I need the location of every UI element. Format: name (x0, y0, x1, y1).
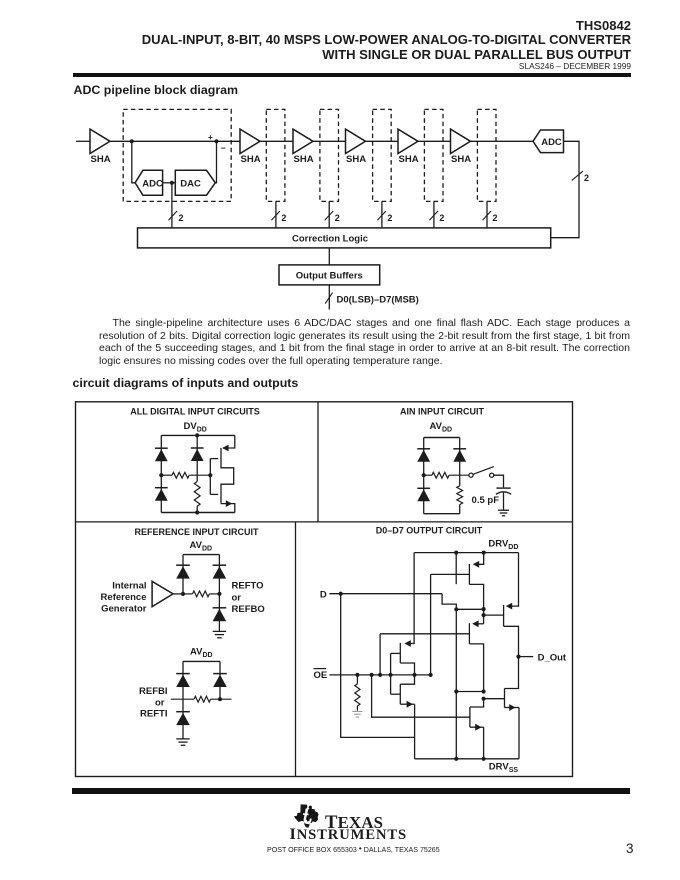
Correction Logic box (138, 228, 551, 248)
paragraph (99, 317, 630, 367)
left branch: diode D10 (182, 661, 184, 738)
svg-text:SHA: SHA (451, 154, 471, 165)
wire final ADC to correction logic (2-bit bus) (551, 141, 579, 237)
stage 2 dashed box (266, 109, 285, 201)
AVDD rail lower (183, 660, 220, 662)
stage 5 dashed box (424, 109, 443, 201)
INSTRUMENTS wordmark (290, 825, 408, 844)
TI logo: texas map with ti (293, 804, 320, 828)
capacitor C1 0.5 pF (496, 487, 510, 489)
header rule (73, 73, 631, 77)
diode D1 (155, 447, 168, 449)
stage 5 2-bit bus (433, 201, 435, 228)
wire correction logic to output buffers (328, 248, 330, 265)
svg-text:2: 2 (281, 213, 286, 223)
pulldown resistor (194, 482, 200, 507)
OE to Q7 gate dropper (390, 675, 392, 694)
wire stage 6 (471, 140, 534, 142)
diode D4 (417, 448, 430, 450)
TEXAS wordmark (325, 812, 383, 834)
AVDD rail upper (183, 554, 219, 556)
svg-text:SHA: SHA (294, 154, 314, 165)
svg-text:Reference: Reference (101, 592, 147, 603)
node (181, 592, 185, 596)
SHA sample-and-hold amplifier at x=398 (398, 129, 418, 153)
stub from rail down (455, 553, 457, 585)
sampling resistor (457, 486, 463, 505)
svg-text:−: − (221, 143, 226, 153)
right diode branch (218, 555, 220, 594)
wire stage 3 (313, 140, 346, 142)
svg-text:OE: OE (314, 670, 328, 681)
transistor Q4 (big PMOS) gate lead (484, 614, 504, 616)
wire stage 2 (260, 140, 293, 142)
bottom rail (161, 512, 235, 514)
Q8 source to DRVSS (483, 727, 485, 759)
Q8 channel (469, 707, 471, 727)
svg-text:AIN INPUT CIRCUIT: AIN INPUT CIRCUIT (400, 406, 484, 416)
svg-text:Output Buffers: Output Buffers (296, 271, 363, 282)
DRVSS rail (415, 758, 519, 760)
Q4 channel (503, 605, 505, 626)
svg-text:2: 2 (335, 213, 340, 223)
svg-text:SHA: SHA (241, 154, 261, 165)
svg-text:DAC: DAC (180, 178, 201, 189)
lower clamp diode D9 (218, 594, 220, 631)
stage 1 dashed box (123, 109, 231, 201)
svg-text:SHA: SHA (91, 154, 111, 165)
right diode branch D12 (219, 661, 221, 699)
output node D_Out (516, 655, 520, 659)
svg-text:REFBO: REFBO (232, 604, 265, 615)
transistor Q2 (NMOS) drain lead (221, 504, 235, 513)
circuit diagrams figure frame (76, 402, 573, 777)
DRVDD rail (414, 552, 518, 554)
header: doc number (519, 61, 631, 71)
Q6 drain to OE node (400, 663, 414, 675)
transistor Q8 (NMOS) drain from node (470, 699, 484, 707)
D0-D7 OUTPUT CIRCUIT quadrant (314, 525, 567, 774)
output bus D0-D7 (328, 285, 330, 310)
OE to Q5 gate riser (379, 634, 381, 675)
SHA sample-and-hold amplifier at x=90 (90, 129, 110, 153)
ground (213, 630, 226, 632)
REFERENCE INPUT CIRCUIT quadrant (101, 527, 265, 745)
AVDD rail (424, 437, 460, 439)
quadrant dividers (76, 521, 573, 523)
svg-text:Generator: Generator (101, 604, 147, 615)
internal reference generator buffer (152, 581, 173, 606)
ground (498, 509, 509, 511)
wire DAC output up to summing junction (215, 141, 216, 183)
D down-wire to Q7 source (341, 594, 415, 738)
svg-text:AVDD: AVDD (190, 646, 213, 659)
svg-text:D0(LSB)–D7(MSB): D0(LSB)–D7(MSB) (337, 295, 419, 306)
stage 6 dashed box (477, 109, 496, 201)
Output Buffers box (279, 265, 380, 285)
node: AIN node (422, 473, 426, 477)
SHA sample-and-hold amplifier at x=345.5 (346, 129, 366, 153)
SHA sample-and-hold amplifier at x=240 (240, 129, 260, 153)
transistor Q1 (PMOS) source lead (223, 435, 235, 448)
wire buffer to node (173, 593, 183, 595)
transistor Q6 (PMOS) source from DRVDD (408, 553, 415, 644)
Q1/Q2 channel with output tab (221, 448, 234, 504)
stage 3 dashed box (320, 109, 339, 201)
svg-text:REFBI: REFBI (139, 686, 168, 697)
left clamp branch (423, 438, 425, 514)
CMOS gate electrode (209, 459, 211, 495)
section heading 1 (74, 83, 239, 97)
wire ADC to DAC with junction node (163, 182, 176, 184)
stage 4 dashed box (373, 109, 392, 201)
Q5 gate wire from OE (380, 633, 469, 635)
transistor Q3 (PMOS) source (474, 553, 484, 565)
node between ADC and DAC (170, 181, 174, 185)
Q9 channel (504, 689, 506, 708)
ground (176, 738, 189, 740)
svg-text:DRVSS: DRVSS (489, 762, 519, 775)
small ground (352, 710, 362, 712)
ADC pipeline block diagram (76, 109, 589, 309)
stage1 ADC block (135, 170, 163, 195)
gate bus node pair (456, 691, 483, 693)
section heading 2 (73, 376, 299, 390)
svg-text:ALL DIGITAL INPUT CIRCUITS: ALL DIGITAL INPUT CIRCUITS (130, 406, 260, 416)
analog input wire (76, 140, 90, 142)
Q8 source lead (470, 726, 484, 728)
bottom rail (424, 513, 460, 515)
wire stage 5 (418, 140, 451, 142)
Q4 drain to output node (504, 626, 519, 688)
transistor Q5 (PMOS) source lead (475, 623, 484, 625)
Q3 gate wire from OE (431, 573, 470, 575)
SHA sample-and-hold amplifier at x=450.5 (451, 129, 471, 153)
wire node down to ADC (132, 141, 135, 183)
Q6 channel (399, 643, 401, 663)
Q6 gate lead (391, 652, 401, 654)
node on rail (454, 551, 458, 555)
node OE-Q3 gate (429, 673, 433, 677)
diode D11 (176, 711, 190, 713)
OE to Q3 gate riser (430, 574, 432, 675)
svg-text:DVDD: DVDD (184, 421, 207, 434)
Q7 gate lead (391, 693, 401, 695)
svg-text:REFERENCE INPUT CIRCUIT: REFERENCE INPUT CIRCUIT (134, 527, 259, 537)
center branch: diode D3 (196, 435, 198, 481)
Q3 drain down (469, 584, 483, 623)
node (218, 697, 222, 701)
svg-text:2: 2 (584, 173, 589, 183)
Q7 source lead (400, 703, 414, 705)
svg-text:DRVDD: DRVDD (488, 538, 518, 551)
Q5 channel (468, 623, 470, 644)
node D-gate bus (454, 607, 458, 611)
stage1 DAC block (175, 170, 215, 195)
Q3 channel (468, 564, 470, 585)
svg-text:D_Out: D_Out (538, 652, 567, 663)
svg-text:Correction Logic: Correction Logic (292, 234, 368, 245)
svg-text:ADC: ADC (142, 178, 163, 189)
node: stage1 input tap (130, 139, 134, 143)
node: input node (159, 473, 163, 477)
stage1 2-bit bus down to correction logic (171, 183, 173, 228)
svg-text:SHA: SHA (399, 154, 419, 165)
svg-text:REFTI: REFTI (140, 709, 167, 720)
svg-text:or: or (155, 697, 165, 708)
svg-text:Internal: Internal (112, 580, 146, 591)
wire stage 4 (366, 140, 399, 142)
svg-text:0.5 pF: 0.5 pF (472, 495, 500, 506)
svg-text:SHA: SHA (346, 154, 366, 165)
transistor Q9 (big NMOS) gate lead (484, 698, 505, 700)
svg-text:REFTO: REFTO (232, 581, 264, 592)
OE to Q8 gate wire (372, 675, 470, 717)
page number (626, 841, 634, 856)
stage 4 2-bit bus (381, 201, 383, 228)
node OE-Q6/Q7 gates (389, 673, 393, 677)
wire to hold capacitor (494, 475, 504, 487)
node on rail 2 (482, 551, 486, 555)
pulldown resistor R1 on OE (356, 675, 358, 684)
left diode branch (182, 555, 184, 594)
svg-text:or: or (232, 592, 242, 603)
Q4 source from DRVDD (508, 553, 519, 607)
diode D5 (417, 487, 430, 489)
AIN INPUT CIRCUIT quadrant (400, 406, 511, 515)
svg-text:+: + (208, 132, 213, 142)
resistor (183, 593, 193, 595)
diode D2 (155, 487, 168, 489)
DVDD rail (161, 434, 235, 436)
Q7 channel (399, 684, 401, 704)
summing node with + and - (214, 139, 218, 143)
header: title line 1 (142, 32, 631, 47)
series resistor (161, 474, 172, 476)
Q9 source to DRVSS corner (518, 708, 520, 759)
header: title line 2 (322, 47, 631, 62)
diode D7 (176, 564, 190, 566)
transistor Q7 (NMOS) drain from OE node (400, 675, 414, 684)
D input wire (329, 593, 442, 595)
stage 6 2-bit bus (486, 201, 488, 228)
footer rule (72, 788, 630, 794)
svg-text:2: 2 (387, 213, 392, 223)
stage 3 2-bit bus (328, 201, 330, 228)
ALL DIGITAL INPUT CIRCUITS quadrant (130, 406, 260, 514)
node OE-Q8 gate (370, 673, 374, 677)
svg-text:AVDD: AVDD (190, 540, 213, 553)
node OE-Q5 gate (378, 673, 382, 677)
node REFTO/REFBO (217, 592, 221, 596)
right branch diode D6 (459, 438, 461, 486)
node OE-Q6/Q7 drains (412, 673, 416, 677)
svg-text:2: 2 (493, 213, 498, 223)
stage 2 2-bit bus (275, 201, 277, 228)
node OE-resistor (355, 673, 359, 677)
SHA sample-and-hold amplifier at x=293 (293, 129, 313, 153)
Q5 drain down to gate node of Q9 (469, 644, 483, 692)
OE input wire (329, 674, 430, 676)
diode D8 (213, 564, 227, 566)
series resistor (424, 474, 432, 476)
svg-text:2: 2 (179, 213, 184, 223)
sampling switch (469, 473, 473, 477)
svg-text:D: D (320, 590, 327, 601)
address (267, 843, 440, 854)
input wire and resistor (171, 698, 194, 700)
OE to Q6 gate riser (390, 653, 392, 675)
svg-text:ADC: ADC (541, 137, 562, 148)
Q9 source lead (505, 707, 520, 709)
wire to Q4 gate node (456, 608, 483, 610)
input gate node (208, 473, 212, 477)
wire SHA1 output to SHA2 (110, 140, 240, 142)
svg-text:D0–D7 OUTPUT CIRCUIT: D0–D7 OUTPUT CIRCUIT (376, 525, 483, 535)
final flash ADC (533, 130, 564, 153)
header: part number (576, 18, 631, 33)
D wire jog to gate bus (442, 594, 456, 759)
svg-text:AVDD: AVDD (430, 421, 453, 434)
svg-text:2: 2 (439, 213, 444, 223)
Q7 source down to DRVSS rail (414, 704, 416, 759)
left clamp branch (160, 435, 162, 512)
